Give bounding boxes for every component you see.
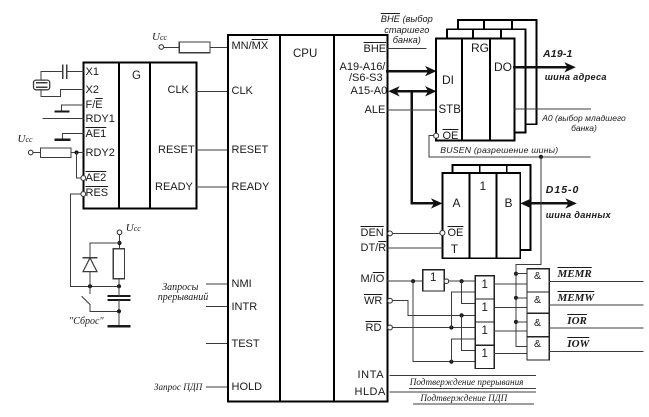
label 1 (inverter) xyxy=(430,273,436,285)
resistor R2 (RDY2 pull-up) xyxy=(41,148,72,158)
pin label BHE xyxy=(364,44,387,55)
pin label AE2 xyxy=(86,173,107,184)
wire R2 to RDY2 xyxy=(71,152,84,154)
junction switch/cap node xyxy=(117,309,121,313)
label шина данных xyxy=(546,211,611,220)
wire MEMR output xyxy=(549,280,643,282)
label BUSEN (разрешение шины) xyxy=(440,146,558,155)
label D15-0 xyxy=(546,185,580,196)
resistor R3 (reset) xyxy=(113,249,124,279)
pin label ALE xyxy=(365,105,386,116)
inverter bubble DEN pin xyxy=(388,231,393,236)
pin label RESET (G) xyxy=(158,145,195,156)
junction M/IO direct xyxy=(449,360,453,364)
wire F/E to ground xyxy=(61,105,83,111)
crystal quartz resonator xyxy=(34,80,50,90)
wire RG OE to BUSEN xyxy=(429,136,434,157)
wire inverter output to OR1 xyxy=(449,280,476,282)
pin label NMI xyxy=(232,279,252,290)
ground (F/E) xyxy=(56,110,69,112)
pin label TEST xyxy=(232,339,260,350)
label & (AND3) xyxy=(534,318,541,329)
ground (reset circuit) xyxy=(109,325,130,327)
wire OR1 to AND1 xyxy=(494,283,527,285)
address latch RG stack (back chip) xyxy=(458,20,536,124)
inverter bubble WR pin xyxy=(388,298,393,303)
junction BUSEN gate3 xyxy=(514,320,518,324)
junction BUSEN xyxy=(539,155,543,159)
pin label RDY2 xyxy=(86,148,115,159)
pin label AE1 xyxy=(86,129,107,140)
pin label X2 xyxy=(86,85,99,96)
pin label RESET (CPU) xyxy=(232,145,269,156)
data transceiver (front chip) xyxy=(442,173,520,258)
junction inverted M/IO xyxy=(460,279,464,283)
pin label CLK (G) xyxy=(168,85,189,96)
pin label DT/R xyxy=(361,243,387,254)
wire R3 to node xyxy=(118,279,120,287)
wire HLDA xyxy=(390,391,536,393)
pin label WR xyxy=(364,296,382,307)
wire capacitor xyxy=(118,286,120,326)
wire RESET xyxy=(197,149,229,151)
label Ucc (RDY2 pull-up) xyxy=(18,134,33,145)
pin label DEN xyxy=(361,228,384,239)
wire CLK xyxy=(197,90,229,92)
pin label A (transceiver) xyxy=(453,197,461,209)
wire Ucc to R1 xyxy=(164,46,180,48)
wire BUSEN to AND2 xyxy=(516,297,527,299)
wire DEN to transceiver OE xyxy=(392,232,439,234)
label IOR xyxy=(567,316,587,327)
wire WR to OR4 xyxy=(462,315,476,350)
address latch RG stack (middle chip) xyxy=(447,29,525,132)
label Подтверждение ПДП xyxy=(420,394,507,403)
wire OR4 to AND4 xyxy=(494,352,527,354)
wire X2 xyxy=(41,89,84,96)
label & (AND4) xyxy=(534,339,541,350)
Ucc terminal (RDY2 pull-up) xyxy=(28,150,33,155)
junction RDY2/AE2 xyxy=(74,150,78,154)
pin label OE (transceiver) xyxy=(448,228,464,239)
wire BUSEN vertical to gates xyxy=(516,157,541,347)
junction diode node xyxy=(88,284,92,288)
wire BUSEN to AND1 xyxy=(516,273,527,275)
wire READY xyxy=(197,186,229,188)
label A19-1 xyxy=(543,49,573,60)
pin label STB xyxy=(439,105,461,117)
capacitor C2 (reset) xyxy=(109,296,130,300)
label & (AND1) xyxy=(534,271,541,282)
label A0 (выбор младшего банка) xyxy=(538,113,630,133)
wire Ucc to R2 xyxy=(33,152,41,154)
label BHE (выбор старшего банка) xyxy=(377,14,436,47)
pin label MN/MX xyxy=(232,41,269,52)
resistor R1 (MN/MX pull-up) xyxy=(179,42,210,53)
data transceiver stack (back chip) xyxy=(453,165,531,250)
pin label F/E xyxy=(86,100,103,111)
pin label RD xyxy=(366,323,382,334)
bus A15-A0 (bidirectional) xyxy=(395,90,429,93)
pin label DI xyxy=(442,74,454,86)
capacitor C1 (crystal coupling) xyxy=(63,66,67,79)
label Сброс xyxy=(69,317,104,327)
label Запросы прерываний xyxy=(158,283,203,303)
pin label INTA xyxy=(358,370,385,381)
wire to diode branch xyxy=(90,243,120,258)
pin label CLK (CPU) xyxy=(232,86,253,97)
label 1 (OR3) xyxy=(482,326,488,338)
wire M/IO to OR4 xyxy=(413,281,475,362)
CPU block xyxy=(228,35,388,402)
junction BUSEN gate1 xyxy=(514,272,518,276)
pin label A15-A0 xyxy=(351,86,388,97)
ground (AE1) xyxy=(56,139,70,141)
diode VD1 xyxy=(83,258,97,287)
pin label READY (CPU) xyxy=(232,182,270,193)
wire A0 (lower bank select) xyxy=(514,108,590,110)
junction RD xyxy=(449,325,453,329)
wire M/IO to OR3 xyxy=(451,339,475,362)
wire OR2 to AND2 xyxy=(494,307,527,309)
wire WR to OR2 xyxy=(392,301,475,316)
inverter bubble transceiver OE xyxy=(440,230,445,235)
pin label DO xyxy=(494,61,512,73)
Ucc terminal (MN/MX pull-up) xyxy=(159,45,164,50)
OR gate column (4x "1") xyxy=(475,276,494,369)
wire HOLD xyxy=(206,386,228,388)
wire reset node xyxy=(71,285,119,287)
wire RDY1 xyxy=(43,118,84,120)
rule under DMA-ack label xyxy=(413,403,533,405)
wire ALE to STB xyxy=(388,109,437,111)
pin label M/IO xyxy=(361,274,385,285)
wire RD to OR1 xyxy=(451,292,475,327)
label & (AND2) xyxy=(534,295,541,306)
address latch RG (front chip) xyxy=(436,39,514,141)
label Подтверждение прерывания xyxy=(410,378,524,387)
wire M/IO xyxy=(388,280,423,282)
wire IOR output xyxy=(549,327,643,329)
wire MEMW output xyxy=(549,304,643,306)
wire DT/R to T xyxy=(388,247,443,249)
wire AE1 to ground xyxy=(63,133,84,139)
label Ucc (MN/MX pull-up) xyxy=(152,32,167,43)
inverter U2 (NOT gate) xyxy=(423,270,444,291)
pin label RDY1 xyxy=(86,114,115,125)
inverter bubble RG OE xyxy=(434,133,439,138)
pin label HLDA xyxy=(355,387,386,398)
label 1 (OR1) xyxy=(482,280,488,292)
label 1 (transceiver) xyxy=(480,180,487,192)
pin label X1 xyxy=(86,67,99,78)
inverter bubble RD pin xyxy=(388,325,393,330)
wire Ucc down xyxy=(119,235,121,249)
bus branch to transceiver A xyxy=(412,92,434,203)
Ucc terminal (reset circuit) xyxy=(117,230,122,235)
bus D15-0 (data bus bidirectional) xyxy=(526,202,568,205)
wire RD to OR3 xyxy=(392,327,475,329)
label IOW xyxy=(567,339,589,350)
wire NMI xyxy=(206,283,228,285)
switch SB1 (Сброс) xyxy=(82,286,119,311)
label MEMR xyxy=(558,269,592,280)
pin label RES xyxy=(86,188,109,199)
bus A19-1 (address bus arrow) xyxy=(514,66,567,69)
wire RES to reset circuit xyxy=(71,194,90,286)
wire BUSEN net xyxy=(429,156,590,158)
label G xyxy=(132,71,141,83)
pin label B (transceiver) xyxy=(505,197,513,209)
wire X1 xyxy=(41,72,84,81)
junction Ucc node xyxy=(117,241,121,245)
pin label /S6-S3 xyxy=(349,73,383,84)
pin label T (transceiver) xyxy=(451,243,458,255)
pin label READY (G) xyxy=(155,182,193,193)
pin label A19-A16/ xyxy=(340,62,386,73)
label Запрос ПДП xyxy=(154,383,202,392)
junction BUSEN gate2 xyxy=(514,296,518,300)
wire junction to AE2 xyxy=(77,153,81,179)
junction WR xyxy=(460,313,464,317)
junction M/IO xyxy=(411,279,415,283)
wire R1 to MN/MX xyxy=(210,46,228,48)
label 1 (OR2) xyxy=(482,303,488,315)
pin label HOLD xyxy=(232,382,263,393)
wire BUSEN to AND3 xyxy=(516,321,527,323)
label CPU xyxy=(293,49,317,61)
junction capacitor node xyxy=(117,284,121,288)
rule under interrupt-ack label xyxy=(410,387,536,389)
wire INTA xyxy=(390,375,536,377)
clock generator G (block) xyxy=(84,63,197,209)
wire TEST xyxy=(206,343,228,345)
label шина адреса xyxy=(545,73,607,82)
inverter bubble RES pin xyxy=(81,192,86,197)
label MEMW xyxy=(558,293,595,304)
label 1 (OR4) xyxy=(482,349,488,361)
wire OR3 to AND3 xyxy=(494,330,527,332)
bus A19-A16/S6-S3 (arrow to RG DI) xyxy=(388,70,429,73)
inverter bubble U2 output xyxy=(444,279,449,284)
label RG xyxy=(471,42,489,54)
pin label OE (RG) xyxy=(443,131,459,142)
inverter bubble AE2 pin xyxy=(81,176,86,181)
wire BHE stub xyxy=(388,48,426,50)
wire INTR xyxy=(206,306,228,308)
wire IOW output xyxy=(549,350,643,352)
wire inverted M/IO to OR2 xyxy=(462,281,476,303)
label Ucc (reset circuit) xyxy=(126,223,141,234)
pin label INTR xyxy=(232,302,258,313)
AND gate column (4x "&") xyxy=(527,269,549,360)
